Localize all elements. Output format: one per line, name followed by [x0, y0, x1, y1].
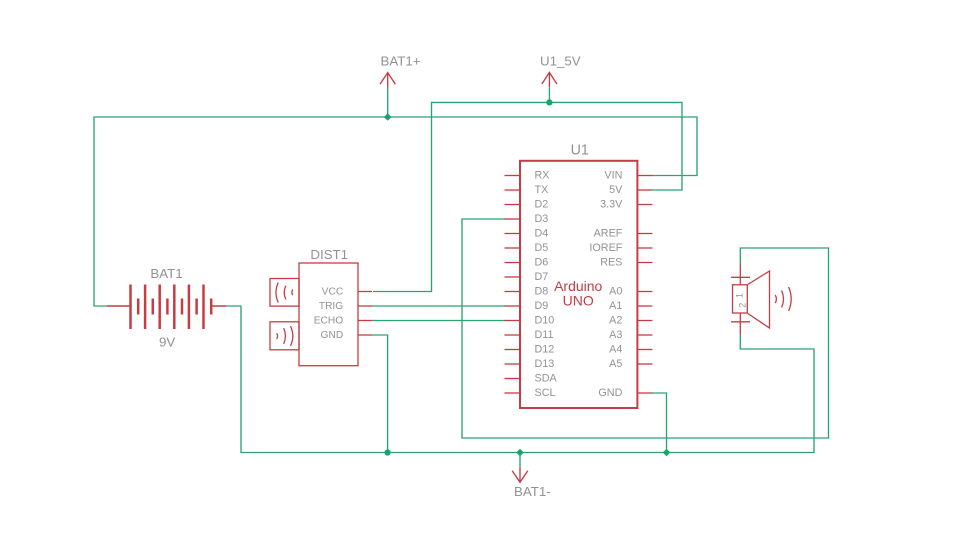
- U1 pin D7 stub: [505, 276, 521, 278]
- speaker driver box: [733, 285, 748, 313]
- svg-text:GND: GND: [598, 387, 622, 399]
- svg-text:UNO: UNO: [563, 292, 594, 308]
- svg-text:IOREF: IOREF: [589, 242, 622, 254]
- svg-text:D6: D6: [535, 257, 549, 269]
- battery lead right: [211, 305, 226, 307]
- svg-text:9V: 9V: [159, 335, 175, 350]
- svg-text:5V: 5V: [609, 184, 623, 196]
- U1 pin D6 stub: [505, 262, 521, 264]
- wire stem of BAT1+ net flag: [387, 88, 389, 118]
- DIST1 pin stub TRIG: [358, 305, 372, 307]
- svg-text:D8: D8: [535, 286, 549, 298]
- svg-text:DIST1: DIST1: [310, 247, 348, 262]
- U1 pin A3 stub: [637, 334, 652, 336]
- DIST1 receiver arcs: [276, 283, 278, 303]
- DIST1 transmitter arcs: [276, 333, 279, 339]
- svg-text:A1: A1: [609, 300, 622, 312]
- speaker cone: [748, 271, 770, 328]
- U1 pin D11 stub: [505, 334, 521, 336]
- svg-text:D7: D7: [535, 271, 549, 283]
- battery BAT1: [107, 285, 226, 330]
- svg-text:SCL: SCL: [535, 387, 556, 399]
- net flags: [380, 72, 557, 482]
- U1 pin D13 stub: [505, 363, 521, 365]
- speaker: [731, 265, 791, 336]
- DIST1 pin stub ECHO: [358, 320, 372, 322]
- U1 pin D2 stub: [505, 204, 521, 206]
- wire U1 GND down to BAT1- rail: [652, 393, 667, 453]
- U1 pin A5 stub: [637, 363, 652, 365]
- ultrasonic distance sensor DIST1: [270, 263, 372, 366]
- svg-text:BAT1-: BAT1-: [514, 484, 551, 499]
- U1 body: [520, 161, 637, 408]
- battery plates short: [138, 299, 211, 315]
- U1 pin SCL stub: [505, 392, 521, 394]
- svg-text:AREF: AREF: [594, 228, 623, 240]
- svg-text:U1_5V: U1_5V: [540, 54, 581, 69]
- svg-text:A3: A3: [609, 329, 622, 341]
- U1 pin TX stub: [505, 189, 521, 191]
- U1 pin D3 stub: [505, 218, 521, 220]
- U1 pin D8 stub: [505, 291, 521, 293]
- svg-text:D2: D2: [535, 199, 549, 211]
- wire net U1_5V : DIST1 VCC to U1 5V: [373, 102, 682, 291]
- svg-text:D11: D11: [535, 329, 554, 341]
- U1 pin A0 stub: [637, 291, 652, 293]
- svg-text:1: 1: [734, 293, 744, 298]
- battery lead left: [107, 305, 131, 307]
- wire ECHO to D10: [372, 320, 506, 322]
- svg-text:D9: D9: [535, 300, 549, 312]
- svg-text:2: 2: [738, 303, 748, 308]
- svg-text:SDA: SDA: [535, 373, 558, 385]
- svg-text:A5: A5: [609, 358, 622, 370]
- U1 right pin name labels VIN..GND: [589, 170, 623, 400]
- U1 pin 5V stub: [637, 189, 652, 191]
- svg-text:BAT1+: BAT1+: [381, 54, 421, 69]
- junction dot on U1_5V flag: [546, 99, 552, 105]
- speaker sound arcs: [775, 295, 776, 303]
- DIST1 pin stub GND: [358, 334, 372, 336]
- DIST1 body: [299, 263, 358, 366]
- speaker pin 2 lead: [739, 314, 741, 336]
- U1 pin 3.3V stub: [637, 204, 652, 206]
- label Arduino UNO: [554, 278, 602, 309]
- svg-text:D4: D4: [535, 228, 549, 240]
- speaker pin 1 lead: [739, 265, 741, 285]
- svg-text:VCC: VCC: [322, 287, 344, 298]
- wire net BAT1- : battery right terminal to speaker pin 2: [226, 306, 814, 453]
- svg-text:RX: RX: [535, 170, 550, 182]
- svg-text:3.3V: 3.3V: [600, 199, 623, 211]
- DIST1 pin name labels VCC,TRIG,ECHO,GND: [314, 287, 344, 342]
- U1 pin RES stub: [637, 262, 652, 264]
- U1 left pin name labels RX..SCL: [535, 170, 558, 400]
- U1 pin IOREF stub: [637, 247, 652, 249]
- junction diamond U1 GND / BAT1- rail: [663, 449, 671, 457]
- wire DIST1 GND down to BAT1- rail: [372, 335, 388, 453]
- svg-text:D12: D12: [535, 344, 555, 356]
- U1 pin A4 stub: [637, 349, 652, 351]
- U1 pin D5 stub: [505, 247, 521, 249]
- U1 pin D12 stub: [505, 349, 521, 351]
- wire D3 to speaker pin 1: [462, 219, 829, 438]
- svg-text:D3: D3: [535, 213, 549, 225]
- svg-text:BAT1: BAT1: [150, 266, 182, 281]
- U1 pin D4 stub: [505, 233, 521, 235]
- wire stem of BAT1- net flag: [519, 453, 521, 468]
- U1 pin D10 stub: [505, 320, 521, 322]
- wire TRIG to D9: [372, 305, 506, 307]
- speaker pin 1 tick: [731, 276, 750, 278]
- speaker pin numbers: [734, 293, 747, 308]
- junction diamond on BAT1+ flag: [384, 113, 392, 121]
- U1 pin SDA stub: [505, 378, 521, 380]
- DIST1 pin stub VCC: [358, 291, 372, 293]
- junction dot DIST1 GND / BAT1- rail: [385, 449, 391, 455]
- svg-text:GND: GND: [321, 330, 344, 341]
- svg-text:TX: TX: [535, 184, 549, 196]
- U1 pin A1 stub: [637, 305, 652, 307]
- U1 pin D9 stub: [505, 305, 521, 307]
- speaker pin 2 tick: [731, 321, 750, 323]
- U1 pin RX stub: [505, 175, 521, 177]
- U1 pin GND stub: [637, 392, 652, 394]
- svg-text:ECHO: ECHO: [314, 316, 344, 327]
- svg-text:TRIG: TRIG: [319, 301, 343, 312]
- DIST1 receiver box: [270, 279, 299, 307]
- svg-text:A0: A0: [609, 286, 622, 298]
- svg-text:U1: U1: [571, 142, 589, 158]
- net flag arrow BAT1-: [512, 467, 528, 482]
- U1 pin A2 stub: [637, 320, 652, 322]
- DIST1 transmitter box: [270, 322, 299, 350]
- wire net BAT1+ : battery left terminal to U1 VIN: [94, 117, 697, 306]
- svg-text:A2: A2: [609, 315, 622, 327]
- svg-text:D5: D5: [535, 242, 549, 254]
- U1 pin AREF stub: [637, 233, 652, 235]
- svg-text:D10: D10: [535, 315, 555, 327]
- battery plates tall: [131, 285, 204, 330]
- junction diamond on BAT1- flag: [516, 449, 524, 457]
- svg-text:D13: D13: [535, 358, 555, 370]
- U1 pin VIN stub: [637, 175, 652, 177]
- net flag arrow BAT1+: [380, 73, 395, 88]
- svg-text:RES: RES: [600, 257, 622, 269]
- wire stem of U1_5V net flag: [548, 87, 550, 102]
- svg-text:VIN: VIN: [604, 170, 622, 182]
- net flag arrow U1_5V: [542, 72, 557, 87]
- svg-text:A4: A4: [609, 344, 622, 356]
